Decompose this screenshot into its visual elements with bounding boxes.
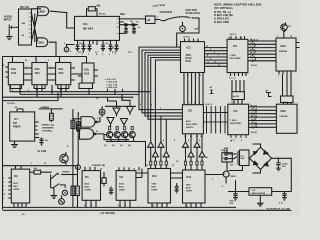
wire bridge (249, 144, 291, 192)
capacitor C10 (109, 186, 113, 194)
svg-text:7: 7 (115, 54, 116, 56)
wires IC4 to DIS1 segment rows (248, 41, 276, 61)
capacitor C8 (132, 25, 136, 34)
svg-text:11: 11 (199, 75, 201, 77)
svg-text:6: 6 (122, 99, 123, 101)
resistor R3 47k (50, 109, 52, 122)
gate U2a (38, 7, 49, 16)
piezo PZ1 (223, 171, 229, 177)
wire DIS1 bottom stubs (279, 71, 291, 74)
svg-text:5: 5 (125, 205, 126, 207)
wire latch inputs (73, 119, 81, 137)
inverter V3 (107, 118, 114, 125)
switch S1 labels (152, 5, 200, 15)
transistor Q7 (114, 132, 120, 138)
wire pullup rails (73, 109, 78, 173)
svg-text:5: 5 (78, 114, 79, 116)
wire IC2 top stubs (185, 39, 199, 42)
svg-text:8: 8 (240, 38, 241, 40)
svg-text:4: 4 (199, 139, 200, 142)
wire IC4 top stubs (231, 36, 245, 39)
wires IC6 to DIS2 segment rows (249, 107, 277, 127)
svg-text:3: 3 (151, 105, 152, 107)
svg-text:9: 9 (70, 51, 71, 53)
svg-text:3: 3 (88, 54, 89, 56)
wire buffer outputs (151, 147, 167, 168)
svg-text:10: 10 (186, 206, 188, 208)
transistor Q9 (129, 132, 135, 138)
wire latch outputs (96, 117, 104, 134)
svg-text:2: 2 (26, 67, 27, 69)
svg-text:Q2: Q2 (112, 145, 115, 147)
capacitor C1 (75, 40, 79, 51)
wire top (25, 8, 41, 10)
IC5 display DIS1 (276, 38, 296, 71)
inverter V4 (121, 119, 128, 126)
svg-text:10: 10 (200, 136, 202, 138)
wire ladder IC3 to IC6 (203, 112, 227, 122)
svg-text:13: 13 (96, 98, 98, 100)
svg-text:2: 2 (160, 108, 161, 110)
capacitor C3 (87, 40, 91, 51)
resistor ticks (150, 161, 203, 165)
wire IC4 bottom stubs (231, 73, 247, 76)
IC7 decade counter (11, 169, 29, 203)
wire left rail (2, 57, 4, 210)
resistor R7 10k (30, 171, 52, 173)
wire regulator left (228, 180, 249, 191)
speaker LS1 (222, 153, 232, 162)
wire top rail (3, 165, 76, 167)
svg-text:5: 5 (191, 75, 192, 77)
wire U2b out (49, 42, 56, 56)
flip-flop FF4 (82, 63, 94, 83)
svg-text:1: 1 (76, 54, 77, 56)
node A (64, 47, 69, 52)
counter IC10 box (148, 169, 171, 204)
svg-text:12: 12 (96, 131, 98, 133)
svg-text:1: 1 (131, 99, 132, 101)
svg-text:2: 2 (82, 54, 83, 56)
svg-text:9: 9 (52, 90, 53, 92)
capacitor C2 (81, 40, 85, 51)
labels above flip-flops (78, 51, 132, 54)
inverter V1 (113, 108, 120, 115)
buffer T3 (152, 151, 158, 157)
wire bus 5 (3, 93, 59, 101)
wire mains (227, 154, 237, 159)
svg-text:5: 5 (196, 206, 197, 208)
wire VCO top stubs (17, 109, 23, 112)
svg-text:5: 5 (207, 46, 208, 48)
svg-text:4: 4 (174, 139, 175, 142)
mains terminal L (225, 153, 227, 155)
node B (76, 165, 81, 170)
junction dots (66, 12, 67, 13)
NAND U13b (80, 129, 94, 140)
svg-text:13: 13 (250, 105, 252, 107)
diode D5 (120, 24, 139, 26)
label +5V line (267, 208, 291, 211)
capacitor C6 (114, 40, 118, 51)
switch PB2 (51, 175, 60, 189)
gate U2b (37, 38, 48, 47)
+5V mark (210, 90, 214, 94)
svg-text:14: 14 (250, 38, 252, 41)
capacitor C13 470u (233, 192, 238, 201)
svg-text:5: 5 (91, 205, 92, 207)
svg-text:15: 15 (133, 169, 135, 171)
svg-text:3: 3 (157, 17, 158, 19)
svg-text:2 4 6 1 9: 2 4 6 1 9 (205, 103, 212, 106)
buffer T1 (148, 142, 154, 148)
transformer T1 (240, 150, 250, 166)
svg-text:Q3: Q3 (120, 145, 123, 147)
switch PB1 reset (52, 173, 58, 178)
svg-text:3: 3 (277, 36, 278, 38)
diode D6 (132, 24, 135, 26)
svg-text:7: 7 (184, 103, 185, 105)
label bus (22, 212, 115, 216)
ground (11, 141, 18, 147)
svg-text:9: 9 (222, 186, 223, 188)
inverter V2 (127, 107, 134, 114)
svg-text:1: 1 (48, 60, 49, 62)
resistor R8 (71, 186, 75, 195)
svg-text:2: 2 (140, 104, 141, 106)
svg-text:12: 12 (207, 62, 209, 64)
transistor Q5 (60, 154, 68, 162)
capacitor C14 (282, 192, 287, 201)
svg-text:16: 16 (228, 38, 230, 40)
svg-text:6: 6 (199, 103, 200, 105)
wire clock bus (3, 56, 87, 58)
wire switch loop (177, 18, 199, 47)
capacitor C12 1000u (276, 158, 281, 171)
svg-text:4: 4 (163, 139, 164, 142)
svg-text:9: 9 (28, 90, 29, 92)
resistor R4 (71, 120, 75, 128)
buffer T6 (194, 142, 200, 148)
label A reset (92, 164, 105, 167)
svg-text:1: 1 (189, 103, 190, 105)
wire FF output bus 1 (10, 85, 150, 92)
wire VCO right stubs (35, 122, 40, 138)
flip-flop FF2 (32, 63, 47, 85)
wire base bus (104, 134, 129, 140)
NAND U13a (81, 117, 95, 128)
counter IC8 box (82, 171, 100, 201)
wires IC2 to IC4 (205, 48, 228, 67)
mains terminal N (225, 157, 227, 159)
svg-text:2: 2 (74, 67, 75, 69)
transistor Q8 (122, 132, 128, 138)
capacitor C7 (124, 25, 128, 34)
resistor R9 (76, 186, 80, 195)
resistor R5 (76, 122, 80, 130)
capacitor C9 (39, 138, 43, 146)
ground (51, 188, 58, 199)
jack J2 (59, 199, 65, 205)
svg-text:13: 13 (184, 136, 186, 138)
VCO IC12 box (10, 112, 35, 141)
label SL1463 (38, 150, 47, 153)
IC4 decoder box (227, 39, 248, 72)
pot RV2 (180, 26, 186, 32)
svg-text:12: 12 (36, 90, 38, 92)
svg-text:9 7 1: 9 7 1 (231, 140, 235, 142)
capacitor C5 (108, 40, 112, 51)
svg-text:5: 5 (162, 206, 163, 208)
capacitor C4 (101, 40, 105, 51)
svg-text:12: 12 (190, 136, 192, 138)
flip-flop FF1 (8, 63, 23, 85)
transistor Q1 (281, 24, 288, 31)
resistor network RN1 (232, 92, 245, 100)
svg-text:0.1: 0.1 (176, 161, 179, 163)
switch S1 (164, 20, 165, 21)
wire drops to FF clocks (13, 57, 87, 64)
wire triangle feeds (161, 116, 166, 151)
input jack J1 (9, 24, 15, 29)
buffer T7 (188, 151, 194, 157)
node C (99, 109, 105, 115)
wire bottom bus 2 (3, 209, 292, 211)
IC U3 (146, 16, 156, 24)
bus junction dots (13, 207, 14, 208)
wire emitter bus (106, 142, 146, 167)
svg-text:4: 4 (188, 139, 189, 142)
wire FF output bus 3 (3, 85, 134, 98)
svg-text:6: 6 (109, 54, 110, 56)
wire IC1 pin stubs (93, 22, 125, 45)
svg-text:2: 2 (194, 103, 195, 105)
wire bottom bus 1 (3, 206, 236, 208)
svg-text:RV 10k: RV 10k (99, 14, 106, 16)
wire IC3 bottom stubs (186, 134, 203, 152)
wire IC1 to U3 (120, 18, 146, 20)
wire IC2 bottom pins (184, 73, 203, 105)
svg-text:3: 3 (183, 75, 184, 77)
resistor network RN2 (281, 96, 294, 103)
flip-flop FF3 (56, 63, 71, 85)
svg-text:6: 6 (195, 75, 196, 77)
svg-text:8 D (5): 8 D (5) (251, 132, 257, 134)
capacitor C11 (175, 183, 179, 193)
wire rails to bus (73, 166, 78, 196)
counter IC9 box (116, 171, 136, 201)
buffer T5 (183, 142, 189, 148)
wire FF output bus 2 (20, 85, 139, 95)
svg-text:6: 6 (241, 140, 242, 142)
wire bus 4 (105, 105, 136, 107)
IC1 PLL box (75, 16, 120, 40)
svg-text:16: 16 (146, 165, 148, 167)
svg-text:15: 15 (100, 169, 102, 171)
svg-text:10: 10 (152, 206, 154, 208)
display DIS2 (276, 104, 297, 133)
svg-text:8: 8 (84, 205, 85, 207)
svg-text:2: 2 (50, 67, 51, 69)
IC2 counter box (181, 42, 205, 73)
IC box U1 (19, 9, 32, 45)
svg-text:Q1: Q1 (104, 145, 107, 147)
input label (4, 15, 12, 22)
buffer T8 (199, 151, 205, 157)
svg-text:16: 16 (172, 165, 174, 167)
svg-text:e: e (278, 76, 279, 78)
svg-text:8 D (5): 8 D (5) (251, 65, 257, 67)
IC3 latch box (182, 105, 203, 134)
ground (257, 195, 264, 206)
pin-note text block (105, 78, 118, 89)
svg-text:8: 8 (118, 205, 119, 207)
svg-text:11: 11 (196, 136, 198, 138)
buffer T4 (163, 151, 169, 157)
wire (16, 26, 19, 28)
LED1 (62, 190, 67, 195)
IC6 decoder box (228, 104, 249, 135)
svg-text:12: 12 (60, 90, 62, 92)
wire bundle nested corners (139, 47, 181, 151)
svg-text:14: 14 (290, 35, 292, 38)
wire IC7 top/bottom stubs (14, 166, 26, 208)
svg-text:6: 6 (64, 43, 65, 45)
wire cross-couple (32, 13, 39, 42)
svg-text:4: 4 (96, 53, 97, 56)
regulator IC13 (249, 188, 272, 196)
counter IC11 box (183, 170, 206, 203)
svg-text:1: 1 (31, 163, 32, 165)
buffer T2 (158, 142, 164, 148)
resistor R1 68k loop (87, 9, 98, 17)
svg-text:2: 2 (212, 179, 213, 181)
wire pin-note drops (108, 89, 123, 95)
wire IC7 left stubs (8, 178, 11, 198)
ground (6, 30, 13, 40)
wire between counters (136, 167, 183, 178)
bridge rectifier D1-D4 (249, 147, 271, 169)
wire U3 out (155, 19, 161, 21)
svg-text:8: 8 (97, 118, 98, 120)
transistor Q6 (107, 132, 113, 138)
svg-text:4: 4 (187, 74, 188, 77)
notes text block (214, 3, 262, 24)
wire U2a out (50, 11, 75, 28)
resistor R10 (102, 178, 106, 184)
clock label (7, 103, 50, 109)
wire IC6 bottom stubs (231, 135, 246, 138)
svg-text:5: 5 (102, 54, 103, 56)
svg-text:C9: C9 (136, 22, 138, 24)
speed cal label (42, 123, 55, 132)
svg-text:5: 5 (12, 90, 13, 92)
svg-text:16: 16 (44, 163, 46, 165)
svg-text:9: 9 (207, 55, 208, 57)
wire bus to IC3 (139, 110, 182, 120)
wire inverter feeds (108, 94, 131, 101)
